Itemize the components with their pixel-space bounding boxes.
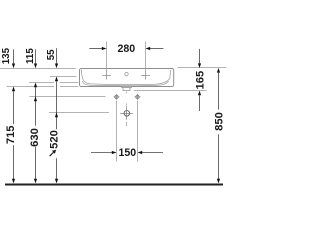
tap hole cross right <box>141 72 150 80</box>
dim 115 line <box>34 49 37 68</box>
svg-text:55: 55 <box>46 49 57 60</box>
drain body <box>123 88 130 91</box>
280 extension line right <box>145 42 147 72</box>
svg-text:630: 630 <box>29 128 41 147</box>
dim 520 column <box>55 77 58 184</box>
dim 135 line <box>12 49 15 68</box>
dim 715 column <box>12 87 15 184</box>
svg-text:520: 520 <box>48 130 60 149</box>
svg-text:850: 850 <box>213 112 225 131</box>
floor line <box>5 184 223 186</box>
drain bottom level extension line (165 bottom) <box>134 90 207 92</box>
135 level line (basin bottom) <box>7 86 79 88</box>
basin outline <box>80 69 174 87</box>
drain flange <box>122 87 132 88</box>
svg-text:115: 115 <box>25 48 36 64</box>
dim 850 column <box>217 68 220 183</box>
dim 165 column <box>198 49 201 111</box>
150 dim arrow left <box>91 151 117 154</box>
520 level line (trap) <box>49 112 109 114</box>
svg-text:715: 715 <box>5 125 17 144</box>
280 dim arrow left <box>89 47 106 50</box>
150 extension line right <box>137 101 139 162</box>
280 extension line left <box>106 42 108 72</box>
55 level line <box>50 76 77 78</box>
150 extension line left <box>116 101 118 162</box>
overflow hole circle <box>125 72 128 75</box>
svg-text:280: 280 <box>117 43 135 55</box>
dim 55 line <box>55 48 58 68</box>
280 dim arrow right <box>146 47 164 50</box>
fixing hole right <box>135 94 141 100</box>
adjustable height arrow glyph <box>50 150 57 157</box>
svg-text:165: 165 <box>194 71 206 90</box>
trap outlet <box>120 106 133 120</box>
630 level line (fixing holes) <box>29 96 105 98</box>
svg-text:135: 135 <box>1 47 12 64</box>
115 level line <box>29 82 78 84</box>
centerline dashes <box>126 92 128 126</box>
rim top extension line left <box>0 68 76 70</box>
tap hole cross left <box>102 72 111 80</box>
svg-text:150: 150 <box>118 147 136 159</box>
150 dim arrow right <box>138 151 164 154</box>
fixing hole left <box>114 94 120 100</box>
dim 630 column <box>34 83 37 184</box>
rim top extension line right <box>177 67 226 69</box>
